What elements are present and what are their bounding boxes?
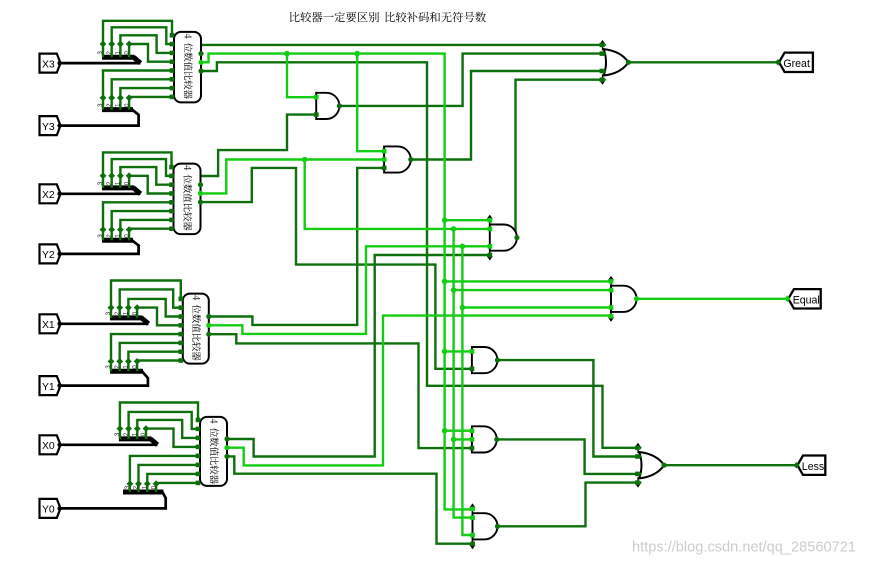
wire Y0 splitter bit1 to comparator [147,474,198,492]
wire Y3 splitter bit1 to comparator [120,88,172,110]
wire OR output to Less pin [664,464,797,466]
input bus Y2 (4-bit, black) [60,240,139,254]
input bus Y1 (4-bit, black) [60,371,148,385]
wire U2 output to OR gate (Great) input 3 [411,71,603,160]
junction E1 trunk [460,244,466,250]
svg-text:2: 2 [106,103,113,107]
wire Y2 splitter bit1 to comparator [120,220,171,240]
wire X3 splitter bit3 to comparator [103,21,172,57]
splitter Y0 leg tips [127,480,134,487]
wire E3 branch to AND U5 input 1 [445,350,472,352]
wire Y2 splitter bit3 to comparator [103,202,172,240]
input bus X2 (4-bit, black) [60,192,141,195]
svg-text:3: 3 [105,311,112,315]
splitter X0 leg tips [117,425,124,432]
wire G1: comparator1 ">" output to AND U2 input 3 [209,168,384,325]
wire E1 trunk down to AND U7 input 3 [462,246,472,535]
svg-text:Great: Great [783,58,810,70]
svg-text:3: 3 [97,103,104,107]
input pin Y3 [40,116,61,135]
svg-text:Y0: Y0 [42,505,55,516]
input pin Y0 [40,499,61,518]
and-gate U3 (E3 E2 E1 G0) [489,216,491,260]
svg-text:0: 0 [131,365,138,369]
wire Y0 splitter bit2 to comparator [139,465,199,492]
junction E2 trunk [451,226,457,232]
input bus X1 (4-bit, black) [60,322,149,325]
svg-text:0: 0 [140,432,147,436]
junction E2 to U3 [302,157,308,163]
svg-text:X3: X3 [42,59,55,70]
junction E3 to U2 [354,51,360,57]
wire X1 splitter bit2 to comparator [120,289,181,318]
svg-text:3: 3 [114,432,121,436]
svg-text:X0: X0 [42,441,55,452]
wire G3: comparator3 ">" output to OR gate (Great) input 1 [201,44,603,46]
svg-text:3: 3 [97,234,104,238]
wire E3 branch to AND U4 input 1 [445,280,611,282]
wire E3 branch to AND U6 input 1 [445,430,472,432]
wire G0: comparator0 ">" output to AND U3 input 4 [227,255,490,457]
wire Y1 splitter bit1 to comparator [128,352,180,372]
splitter Y3 [102,107,133,112]
and-gate U6 (E3 E2 L1) [472,426,497,452]
svg-text:https://blog.csdn.net/qq_28560: https://blog.csdn.net/qq_28560721 [632,540,856,556]
svg-text:3: 3 [124,485,131,489]
svg-text:1: 1 [123,365,130,369]
splitter Y1 leg tips [108,358,115,365]
wire U5 output to OR gate (Less) input 2 [497,360,638,456]
wire X2 splitter bit0 to comparator [129,176,171,194]
svg-text:0: 0 [123,103,130,107]
input pin Y1 [40,376,61,395]
svg-text:3: 3 [97,51,104,55]
junction E3 to U1 [284,51,290,57]
junction E3 to U6 [442,428,448,434]
wire U1 output to OR gate (Great) input 2 [339,54,602,106]
output pin Less [797,456,825,475]
wire E3 branch to AND U1 input 1 [287,54,316,98]
wire E0 (equal, bit0) from comparator0 to AND U4 input 4 [227,316,611,466]
junction E3 to U3 [442,217,448,223]
or-gate O1 (Great) [602,41,604,51]
input bus X0 (4-bit, black) [60,443,158,446]
input bus X3 (4-bit, black) [60,62,141,65]
title text [290,12,486,23]
wire X2 splitter bit1 to comparator [120,167,171,188]
input bus Y3 (4-bit, black) [60,110,139,126]
output pin Great [779,53,813,72]
wire Y1 splitter bit3 to comparator [111,334,181,371]
splitter X3 leg tips [100,41,107,48]
junction E2 to U6 [451,437,457,443]
wire E1 branch to AND U4 input 3 [462,306,611,308]
input pin X2 [40,184,61,203]
comparator block UB "4位数值比较器" bit 2 [174,164,201,235]
wire E2 branch to AND U4 input 2 [454,289,611,291]
wire E3 (equal, bit3) trunk from comparator3 [201,54,473,510]
svg-text:1: 1 [132,432,139,436]
comparator block UA "4位数值比较器" bit 3 [174,32,201,103]
svg-text:Equal: Equal [793,294,820,306]
wire X2 splitter bit3 to comparator [103,152,172,188]
input pin X1 [40,314,61,333]
splitter X1 leg tips [108,304,115,311]
and-gate U7 (E3 E2 E1 L0) [472,504,474,548]
svg-text:0: 0 [123,181,130,185]
wire X3 splitter bit1 to comparator [120,35,172,57]
svg-text:1: 1 [115,51,122,55]
svg-text:X1: X1 [42,320,55,331]
splitter Y1 [110,369,143,374]
svg-text:X2: X2 [42,190,55,201]
wire E2 branch to AND U3 input 2 [305,160,490,229]
wire Y0 splitter bit3 to comparator [130,456,198,492]
wire U4 output to Equal pin [637,298,789,300]
input pin Y2 [40,244,61,263]
comparator block UD "4位数值比较器" bit 0 [200,417,227,486]
and-gate U2 (E3 E2 G1) [384,146,411,172]
wire X1 splitter bit3 to comparator [111,281,181,318]
input bus Y0 (4-bit, black) [60,492,166,508]
wire E3 branch to AND U2 input 1 [357,54,384,152]
input pin X3 [40,54,61,73]
wire Y2 splitter bit2 to comparator [112,211,172,240]
splitter X2 [102,185,135,190]
wire X1 splitter bit0 to comparator [137,308,181,326]
svg-text:2: 2 [114,311,121,315]
svg-text:Y1: Y1 [42,382,55,393]
splitter X2 leg tips [100,172,107,179]
svg-text:3: 3 [97,181,104,185]
wire G2: comparator2 ">" output to AND U1 input 2 [201,115,317,176]
splitter Y0 [123,490,163,495]
wire X1 splitter bit1 to comparator [128,299,180,318]
svg-text:Less: Less [802,461,824,473]
wire Y3 splitter bit0 to comparator [129,97,172,110]
wire Y3 splitter bit2 to comparator [112,79,172,109]
splitter Y3 leg tips [100,94,107,101]
wire U7 output to OR gate (Less) input 4 [498,483,639,527]
wire X3 splitter bit0 to comparator [129,44,172,62]
wire L3: comparator3 "<" output down to OR gate (Less) input 1 [201,62,638,448]
svg-text:0: 0 [123,234,130,238]
svg-text:Y2: Y2 [42,250,55,261]
wire E1 (equal, bit1) from comparator1 to AND U3 input 3 [209,246,490,334]
svg-text:2: 2 [123,432,130,436]
svg-text:1: 1 [123,311,130,315]
wire E2 branch to AND U6 input 2 [454,438,472,440]
svg-text:2: 2 [106,234,113,238]
svg-text:1: 1 [115,234,122,238]
comparator block UC "4位数值比较器" bit 1 [183,294,209,364]
wire L0: comparator0 "<" output to AND U7 input 4 [227,456,473,543]
splitter X1 [110,315,143,320]
and-gate U5 (E3 AND L2) [472,347,497,373]
wire U6 output to OR gate (Less) input 3 [497,439,638,474]
svg-text:1: 1 [142,485,149,489]
splitter Y2 leg tips [100,226,107,233]
input pin X0 [40,435,61,454]
splitter Y2 [102,238,133,243]
wire Y0 splitter bit0 to comparator [156,483,198,492]
wire X0 splitter bit3 to comparator [120,403,198,439]
wire Y1 splitter bit2 to comparator [120,343,181,371]
wire E2 (equal, bit2) from comparator2 to AND U2 input 2 [201,160,385,194]
svg-text:0: 0 [131,311,138,315]
wire Y3 splitter bit3 to comparator [103,71,172,110]
junction E3 to U5 [442,349,448,355]
svg-text:2: 2 [106,181,113,185]
wire L1: comparator1 "<" output to AND U6 input 3 [209,334,472,448]
wire U3 output to OR gate (Great) input 4 [516,80,603,238]
junction E1 to U4 [460,305,466,311]
wire X2 splitter bit2 to comparator [112,159,172,188]
svg-text:0: 0 [150,485,157,489]
wire X0 splitter bit2 to comparator [129,412,198,439]
svg-text:3: 3 [105,365,112,369]
and-gate U4 (E3 E2 E1 E0 - Equal) [610,277,612,321]
wire Y2 splitter bit0 to comparator [129,229,171,241]
wire X3 splitter bit2 to comparator [112,27,172,57]
wire E2 trunk down [454,229,473,518]
wire X0 splitter bit0 to comparator [146,429,198,447]
splitter X3 [102,55,135,60]
wire OR output to Great pin [628,61,779,63]
splitter X0 [119,436,152,441]
svg-text:1: 1 [115,181,122,185]
svg-text:1: 1 [115,103,122,107]
output pin Equal [788,289,820,308]
svg-text:Y3: Y3 [42,122,55,133]
wire E3 branch to AND U3 input 1 [445,219,490,221]
wire Y1 splitter bit0 to comparator [137,361,181,372]
wire X0 splitter bit1 to comparator [137,420,198,439]
junction E2 to U4 [451,287,457,293]
wire L2: comparator2 "<" output to AND U5 input 2 [201,168,472,369]
or-gate O2 (Less) [637,444,639,454]
svg-text:0: 0 [123,51,130,55]
svg-text:2: 2 [106,51,113,55]
svg-text:2: 2 [114,365,121,369]
and-gate U1 (E3 AND G2) [316,93,339,119]
junction E3 to U4 [442,279,448,285]
svg-text:2: 2 [133,485,140,489]
